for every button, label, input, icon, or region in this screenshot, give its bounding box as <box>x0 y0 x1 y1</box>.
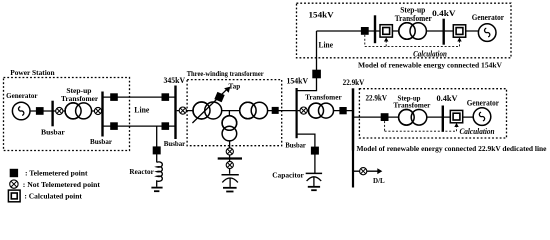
busbar (tertiary bar) <box>218 157 242 159</box>
svg-text:: Calculated point: : Calculated point <box>24 192 82 201</box>
svg-text:D/L: D/L <box>373 176 385 185</box>
calculation dashed link (154kV model) <box>365 35 460 47</box>
calculated point (before step-up transformer) <box>380 25 392 37</box>
svg-text:Generator: Generator <box>467 98 500 107</box>
svg-text:Transfomer: Transfomer <box>395 14 432 23</box>
dashed model box (renewable 22.9kV) <box>359 89 506 138</box>
dashed box Power Station <box>4 78 130 151</box>
wire (lower line circuit) <box>103 125 176 127</box>
not telemetered point (transformer low side) <box>56 107 63 114</box>
svg-text:Generator: Generator <box>472 13 505 22</box>
wire (upper line circuit) <box>103 96 176 98</box>
wire (D/L branch) <box>354 170 378 172</box>
busbar (generator busbar) <box>51 101 53 127</box>
not telemetered point (transformer 154kV side) <box>300 107 307 114</box>
telemetered point (22.9kV model line) <box>381 113 389 121</box>
wire (22.9kV feeder down) <box>352 151 354 188</box>
svg-text:0.4kV: 0.4kV <box>437 93 459 103</box>
svg-text:Line: Line <box>319 40 334 49</box>
wire (drop to reactor) <box>156 126 158 162</box>
arrowhead D/L <box>377 168 382 174</box>
wire (drop from 154kV model to 154kV busbar) <box>297 31 316 91</box>
telemetered point (lower line, receiving end) <box>162 122 170 130</box>
legend telemetered point symbol <box>10 169 18 177</box>
dashed model box (renewable 154kV) <box>297 3 512 58</box>
telemetered point (upper line, sending end) <box>110 93 118 101</box>
legend calculated point symbol <box>8 190 20 202</box>
busbar 345kV <box>174 86 176 140</box>
svg-text:Line: Line <box>134 106 149 115</box>
calculated point (22.9kV model) <box>450 110 462 122</box>
svg-text:Busbar: Busbar <box>41 128 65 137</box>
svg-text:154kV: 154kV <box>287 75 309 85</box>
telemetered point (154kV model line) <box>361 27 369 35</box>
arrowhead into calculated point 1 <box>384 37 388 41</box>
busbar (154kV model) <box>374 15 376 43</box>
svg-text:Tap: Tap <box>229 81 241 90</box>
three-winding transformer secondary pair <box>240 102 268 118</box>
calculated point (generator side, 154kV model) <box>453 25 465 37</box>
svg-text:Capacitor: Capacitor <box>272 171 304 180</box>
telemetered point (tap position) <box>214 92 224 102</box>
svg-text:0.4kV: 0.4kV <box>432 8 456 18</box>
svg-text:Busbar: Busbar <box>164 139 186 148</box>
telemetered point (transformer 22.9kV side) <box>339 107 346 114</box>
busbar (power station HV busbar) <box>101 92 103 137</box>
telemetered point (reactor feeder) <box>153 146 161 154</box>
ground (tertiary capacitor) <box>223 187 237 189</box>
wire (stub to tertiary winding) <box>228 111 230 116</box>
not telemetered point (D/L) <box>360 168 367 175</box>
wire (22.9kV model main) <box>354 116 473 118</box>
svg-text:Model of renewable energy conn: Model of renewable energy connected 154k… <box>358 60 503 69</box>
svg-text:Model of renewable energy conn: Model of renewable energy connected 22.9… <box>357 144 548 153</box>
three-winding transformer primary pair <box>193 102 222 119</box>
not telemetered point (345kV side of 3W transformer) <box>179 107 186 114</box>
busbar 0.4kV (154kV model) <box>443 19 445 45</box>
arrowhead into calculated point 2 <box>457 37 461 41</box>
ground (154kV capacitor) <box>308 186 320 188</box>
ground (reactor) <box>151 187 162 189</box>
svg-text:Power Station: Power Station <box>10 68 55 77</box>
svg-text:Busbar: Busbar <box>90 137 113 146</box>
telemetered point (lower line, sending end) <box>110 122 118 130</box>
busbar 0.4kV (22.9kV model) <box>442 106 444 132</box>
not telemetered point (transformer high side) <box>94 107 101 114</box>
telemetered point (3W transformer 154kV side) <box>272 107 279 114</box>
wire (generator to busbar 1) <box>29 110 102 112</box>
transformer 154/22.9kV <box>309 103 334 118</box>
step-up transformer (22.9kV model) <box>399 110 427 126</box>
legend not telemetered symbol <box>10 180 18 188</box>
generator G (power station) <box>12 102 30 120</box>
not telemetered point (capacitor feeder) <box>226 161 233 168</box>
wire (345kV busbar to three-winding transformer and 154kV busbar) <box>177 110 296 112</box>
generator G (22.9kV model) <box>473 108 491 126</box>
svg-text:154kV: 154kV <box>309 10 335 20</box>
svg-text:Transfomer: Transfomer <box>305 92 342 101</box>
capacitor C (154kV) <box>306 172 322 174</box>
telemetered point (generator output) <box>36 107 44 115</box>
svg-text:: Not Telemetered point: : Not Telemetered point <box>23 180 101 189</box>
svg-text:345kV: 345kV <box>164 75 186 85</box>
arrowhead into calculated point (22.9kV model) <box>454 123 458 127</box>
wire (tertiary drop) <box>229 141 231 174</box>
reactor L1 (shunt reactor coil) <box>157 162 163 187</box>
svg-text:Transfomer: Transfomer <box>393 101 431 110</box>
svg-text:Generator: Generator <box>6 91 38 100</box>
svg-text:Busbar: Busbar <box>285 141 306 150</box>
svg-text:Reactor: Reactor <box>129 167 154 176</box>
calculation dashed link (22.9kV model) <box>385 121 457 131</box>
telemetered point (on drop wire to 154kV busbar) <box>312 70 321 79</box>
capacitor (tertiary) <box>222 174 239 176</box>
busbar 22.9kV <box>352 88 355 150</box>
three-winding transformer tertiary pair <box>222 116 237 141</box>
dashed box (three-winding transformer) <box>187 80 282 146</box>
telemetered point (upper line, receiving end) <box>162 93 170 101</box>
step-up transformer U1 (154kV model) <box>399 23 427 39</box>
svg-text:22.9kV: 22.9kV <box>366 93 388 103</box>
svg-text:Calculation: Calculation <box>459 127 494 136</box>
wire (154kV busbar to 22.9kV busbar) <box>298 110 352 112</box>
svg-text:Three-winding transformer: Three-winding transformer <box>187 69 265 78</box>
step-up transformer (power station) <box>65 103 92 119</box>
svg-text:Transfomer: Transfomer <box>61 94 99 103</box>
not telemetered point (tertiary feeder) <box>226 148 233 155</box>
generator G (154kV model) <box>478 24 496 42</box>
svg-text:Calculation: Calculation <box>413 49 447 58</box>
svg-text:22.9kV: 22.9kV <box>343 78 365 87</box>
wire (main horizontal in 154kV model) <box>317 30 479 32</box>
telemetered point (capacitor feeder) <box>311 147 319 155</box>
wire (154kV capacitor branch) <box>297 134 315 173</box>
busbar 154kV <box>296 88 298 138</box>
tap changer diagonal arrow <box>192 90 226 123</box>
svg-text:: Telemetered point: : Telemetered point <box>25 169 88 178</box>
